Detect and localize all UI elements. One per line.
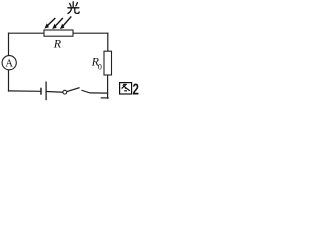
svg-text:2: 2 <box>133 81 139 98</box>
svg-text:A: A <box>5 58 13 69</box>
svg-text:0: 0 <box>98 63 102 72</box>
svg-text:R: R <box>53 36 62 50</box>
